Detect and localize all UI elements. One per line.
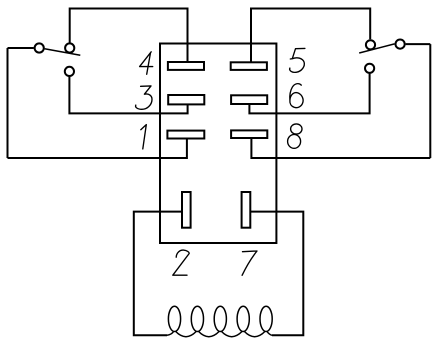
pin 5 contact [231,62,267,70]
pin 6 contact [231,95,267,104]
wire coil right branch from pin 7 [250,212,303,336]
label pin 4 [140,52,153,75]
pin 2 blade [182,192,191,228]
label pin 8 [291,124,302,134]
wire coil left branch from pin 2 [134,212,182,336]
switch SW1 lower throw terminal [65,67,74,76]
label pin 5 [290,48,305,72]
wire bottom right rail to pin 8 [251,138,430,158]
wire right switch common lead [406,43,431,45]
switch SW2 lower throw terminal [365,64,374,73]
switch SW2 common terminal [396,40,405,49]
wire right loop top [251,9,370,63]
pin 7 blade [242,192,251,228]
pin 8 contact [231,130,267,138]
pin 3 contact [168,95,204,104]
wire left loop top [70,9,188,63]
wire bottom left rail to pin 1 [8,139,187,159]
wire right rail [429,44,431,158]
relay box U1 [160,44,276,244]
wire left switch common lead [8,47,34,49]
pin 1 contact [167,131,204,139]
wire right throw to pin 6 [249,73,369,114]
switch SW2 upper throw terminal [366,40,375,49]
label pin 7 [242,251,257,275]
pin 4 contact [168,62,204,70]
wire left throw to pin 3 [69,76,187,114]
switch SW1 common terminal [35,43,44,52]
coil K1 [167,306,272,336]
wire left rail [7,48,9,158]
label pin 1 [141,125,147,149]
label pin 2 [173,250,189,275]
wire right switch blade [359,44,394,53]
wire left switch blade [45,49,81,56]
switch SW1 upper throw terminal [65,43,74,52]
label pin 3 [136,86,152,109]
label pin 6 [290,84,303,108]
